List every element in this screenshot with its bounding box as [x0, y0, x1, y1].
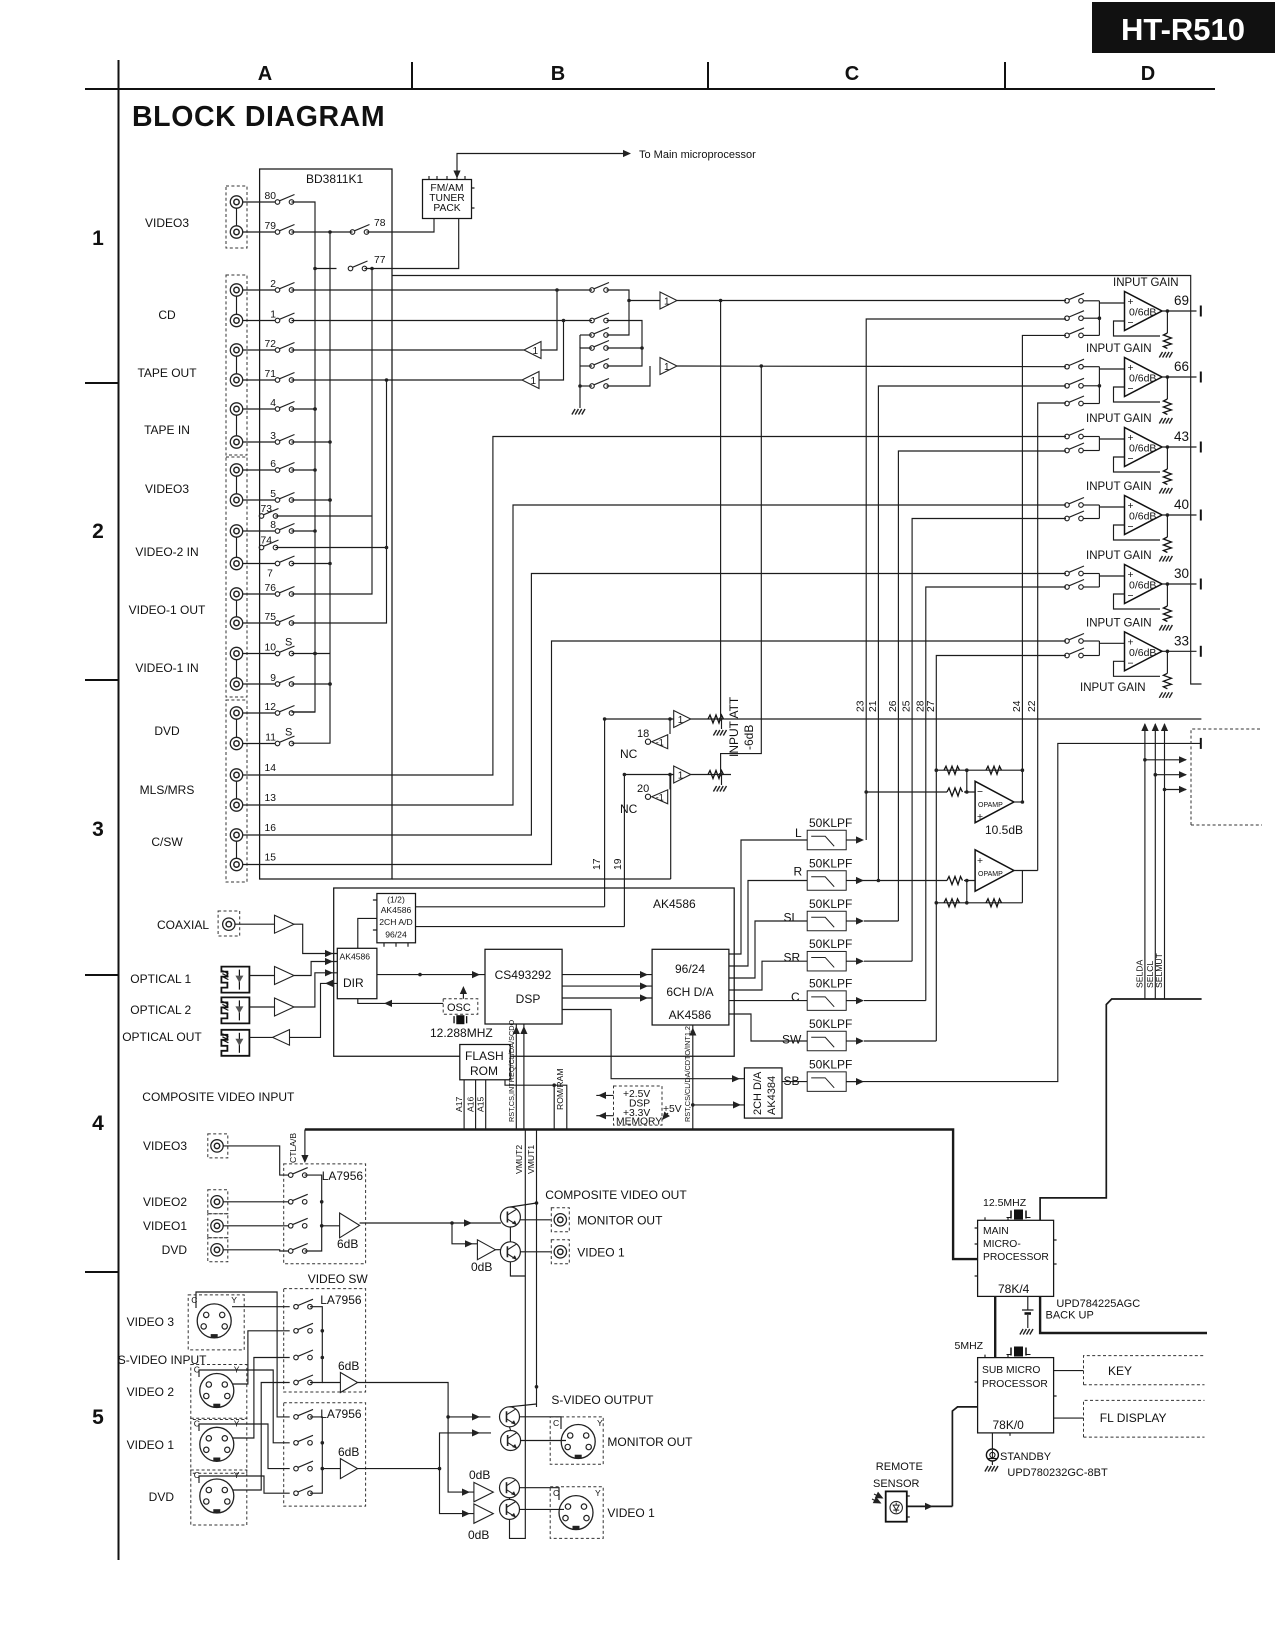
wire gain switch 66.3: [1084, 403, 1100, 405]
matrix sw-f stub: [580, 385, 592, 387]
svg-text:0/6dB: 0/6dB: [1129, 580, 1156, 592]
svg-text:VIDEO2: VIDEO2: [143, 1195, 187, 1209]
VMUT1 line: [536, 1130, 538, 1204]
50KLPF C box: [807, 991, 846, 1011]
jack MLS/MRS L: [230, 769, 242, 781]
wire NC 18: [669, 719, 671, 734]
jack TAPE IN L: [230, 403, 242, 415]
wire collector to amp 69: [1099, 302, 1124, 304]
svg-text:INPUT ATT: INPUT ATT: [727, 696, 741, 757]
svg-text:Y: Y: [234, 1418, 240, 1428]
power arrow 2: [596, 1115, 613, 1117]
wire gain switch 66.2: [1084, 385, 1100, 387]
opamp L input wire: [866, 791, 975, 793]
dashed jack group VIDEO3 top: [226, 186, 247, 248]
SELCL branch: [1155, 774, 1186, 776]
svg-text:INPUT GAIN: INPUT GAIN: [1086, 481, 1152, 493]
sv route dvdc: [199, 1476, 290, 1493]
svg-text:2CH A/D: 2CH A/D: [379, 917, 412, 927]
net 26 vertical: [898, 451, 1066, 921]
junction: [1166, 445, 1170, 449]
gain feedback 40: [1114, 525, 1161, 540]
matrix switch: [590, 359, 609, 369]
50KLPF L box: [807, 830, 846, 850]
svg-text:77: 77: [374, 255, 386, 266]
svg-text:C: C: [791, 990, 800, 1004]
lpf SW out: [864, 1040, 936, 1042]
att buffer L: [674, 711, 691, 728]
50KLPF R out arrow: [846, 880, 858, 882]
cv collector: [305, 1175, 322, 1251]
wire buffer L out: [677, 300, 1066, 302]
svg-text:76: 76: [265, 583, 277, 594]
jack VIDEO-1 IN R: [230, 678, 242, 690]
svg-text:PROCESSOR: PROCESSOR: [983, 1252, 1049, 1263]
jack VIDEO-2 IN R: [230, 557, 242, 569]
DA out wire: [729, 840, 807, 954]
svg-text:RST,CS,INTREQ/CL/DA/SCDO: RST,CS,INTREQ/CL/DA/SCDO: [507, 1020, 516, 1122]
svg-text:B: B: [551, 63, 565, 85]
wire pin 14 run: [243, 437, 1066, 776]
svg-text:13: 13: [265, 793, 277, 804]
svg-text:LA7956: LA7956: [320, 1407, 362, 1421]
NC buffer 18: [652, 735, 668, 749]
sv Y out: [358, 1383, 491, 1417]
svg-text:33: 33: [1174, 633, 1189, 648]
svg-text:96/24: 96/24: [675, 962, 705, 976]
sv C 6dB amp: [340, 1459, 357, 1479]
matrix switch: [590, 328, 609, 338]
svg-text:Y: Y: [231, 1295, 237, 1305]
transistor link: [509, 1227, 511, 1242]
svg-text:OPAMP: OPAMP: [978, 871, 1003, 878]
junction: [313, 267, 317, 271]
svg-text:79: 79: [265, 221, 277, 232]
junction: [555, 288, 559, 292]
cv selector switch: [288, 1168, 307, 1178]
svg-text:VIDEO 1: VIDEO 1: [127, 1438, 175, 1452]
svg-text:78K/4: 78K/4: [998, 1282, 1030, 1296]
svg-text:ROM/RAM: ROM/RAM: [555, 1068, 565, 1110]
svg-text:OPTICAL OUT: OPTICAL OUT: [122, 1030, 202, 1044]
switch pin 73: [259, 509, 278, 519]
junction: [578, 384, 582, 388]
cv wire video2: [224, 1201, 289, 1203]
jack DVD L: [230, 707, 242, 719]
gain switch 69.3: [1065, 328, 1084, 338]
wire gain switch 40.2: [1084, 518, 1100, 520]
main buffer R: [660, 358, 677, 375]
att resistor R: [708, 771, 724, 779]
main control bus: [305, 1130, 978, 1260]
junction: [719, 299, 723, 303]
sv route v1y: [233, 1358, 290, 1439]
50KLPF SB out arrow: [846, 1081, 858, 1083]
opamp R fb link: [966, 881, 968, 903]
gain collector 43: [1098, 437, 1100, 451]
att feed from buffer L out: [720, 301, 722, 720]
svg-text:OPAMP: OPAMP: [978, 802, 1003, 809]
wire pin9: [292, 683, 331, 685]
gain shunt resistor 66: [1166, 377, 1168, 399]
svg-text:VIDEO 1: VIDEO 1: [577, 1246, 625, 1260]
svg-text:26: 26: [888, 700, 899, 712]
svg-text:C: C: [845, 63, 859, 85]
50KLPF SL box: [807, 911, 846, 931]
gain switch 66.1: [1065, 359, 1084, 369]
video1 out jack: [551, 1240, 569, 1264]
SELMUT branch: [1165, 789, 1187, 791]
matrix switch: [590, 341, 609, 351]
junction: [719, 717, 723, 721]
svg-text:28: 28: [915, 700, 926, 712]
svg-text:OPTICAL 1: OPTICAL 1: [130, 972, 191, 986]
junction: [668, 717, 672, 721]
lpf SL out: [864, 920, 898, 922]
NC pin 20: [645, 794, 650, 799]
rec buffer L: [524, 342, 541, 359]
svg-text:(1/2): (1/2): [387, 895, 405, 905]
wire rec buffer L input: [541, 290, 557, 350]
crystal main: [1007, 1210, 1031, 1220]
svg-text:PACK: PACK: [433, 203, 460, 214]
svg-text:30: 30: [1174, 566, 1189, 581]
COAXIAL amp: [275, 915, 295, 933]
tuner pack top pin ticks: [429, 176, 465, 180]
sel bus path: [1040, 999, 1202, 1220]
svg-text:1: 1: [270, 310, 276, 321]
matrix collector R: [607, 321, 643, 367]
sv 0dB amp 2: [474, 1504, 493, 1523]
net sw76 vertical: [292, 269, 373, 595]
matrix sw-d right: [607, 347, 643, 349]
standby ground: [985, 1466, 998, 1472]
junction: [623, 773, 627, 777]
opamp R out: [1014, 870, 1038, 872]
svg-text:DVD: DVD: [149, 1490, 175, 1504]
cv wire video1: [224, 1225, 289, 1227]
sv video1 out connector: [550, 1487, 603, 1539]
gain out tick 66: [1200, 372, 1202, 383]
svg-text:A: A: [258, 63, 272, 85]
junction: [328, 682, 332, 686]
wire pin72 rec: [292, 349, 525, 351]
FM/AM dashed right pins: [472, 188, 475, 208]
stub to bus L: [292, 469, 316, 471]
jack pair link: [236, 538, 238, 558]
svg-text:−: −: [1128, 591, 1134, 602]
net 25 vertical: [912, 519, 1066, 962]
jack VIDEO-2 IN L: [230, 525, 242, 537]
jack VIDEO-1 OUT R: [230, 617, 242, 629]
junction: [385, 546, 389, 550]
junction: [1166, 375, 1170, 379]
svg-text:74: 74: [261, 536, 273, 547]
gain collector 40: [1098, 505, 1100, 519]
junction: [1166, 513, 1170, 517]
jack pair link: [236, 660, 238, 678]
wire jack to pin 8: [243, 530, 275, 532]
svg-text:CTLA/B: CTLA/B: [288, 1133, 298, 1163]
switch pin 79: [275, 225, 294, 235]
sv route v1c: [199, 1424, 290, 1469]
junction: [668, 773, 672, 777]
ADC 1/2 pin ticks: [373, 900, 408, 947]
switch pin 3: [275, 435, 294, 445]
svg-text:40: 40: [1174, 497, 1189, 512]
SELCL line: [1154, 724, 1156, 999]
sv connector VIDEO 3 dashed: [188, 1295, 244, 1350]
rom/ram lines: [505, 1080, 567, 1130]
wire jack to pin 11: [243, 743, 275, 745]
COAXIAL jack: [223, 918, 235, 930]
svg-text:AK4586: AK4586: [381, 905, 412, 915]
wire jack to pin 4: [243, 408, 275, 410]
junction: [603, 717, 607, 721]
svg-text:INPUT GAIN: INPUT GAIN: [1113, 277, 1179, 289]
address line A16: [475, 1080, 477, 1130]
svg-text:SUB MICRO: SUB MICRO: [982, 1365, 1040, 1376]
DIR to DSP wire: [377, 974, 485, 976]
wire collector to amp 33: [1099, 642, 1124, 644]
switch pin 5: [275, 493, 294, 503]
row tick 2-3: [85, 679, 118, 681]
net 19 to ADC: [416, 926, 625, 928]
gain feedback 43: [1114, 457, 1161, 472]
svg-text:16: 16: [265, 823, 277, 834]
svg-text:REMOTE: REMOTE: [876, 1461, 923, 1473]
DSP ctrl line: [515, 1024, 517, 1130]
50KLPF SR out arrow: [846, 960, 858, 962]
wire jack to pin 79: [243, 231, 275, 233]
OSC crystal: [454, 1015, 467, 1024]
svg-text:S: S: [285, 727, 292, 739]
svg-text:VIDEO1: VIDEO1: [143, 1219, 187, 1233]
monitor out jack: [551, 1208, 569, 1232]
row tick 1-2: [85, 382, 118, 384]
cv jack dashed VIDEO2: [208, 1190, 228, 1214]
lpf SR out: [864, 960, 912, 962]
cv jack dashed VIDEO3: [208, 1134, 228, 1158]
att ground stub R: [721, 775, 723, 786]
OSC clock arrow: [462, 988, 464, 999]
wire collector to amp 66: [1099, 368, 1124, 370]
sv route v2c: [199, 1370, 290, 1443]
AK4384 to SB lpf: [782, 1081, 807, 1083]
COAXIAL to DIR: [294, 924, 337, 953]
thick line to right: [1040, 1296, 1207, 1333]
lpf SB out: [846, 743, 1201, 1081]
svg-text:MLS/MRS: MLS/MRS: [140, 783, 195, 797]
cv selector switch: [288, 1244, 307, 1254]
cv jack VIDEO2: [211, 1196, 223, 1208]
wire pin 16 run: [243, 574, 1066, 836]
svg-text:7: 7: [267, 569, 273, 580]
wire jack to pin 12: [243, 712, 275, 714]
junction: [1166, 582, 1170, 586]
svg-text:LA7956: LA7956: [322, 1169, 364, 1183]
svg-text:Y: Y: [597, 1418, 603, 1428]
svg-text:VIDEO3: VIDEO3: [145, 482, 189, 496]
6CH DA box: [652, 949, 729, 1025]
net 22 vertical: [1038, 403, 1066, 871]
sensor wire: [907, 1505, 953, 1507]
wire buffer R out: [677, 365, 1066, 368]
main-sub link: [994, 1296, 996, 1357]
net 21 vertical: [878, 386, 1066, 881]
junction: [385, 378, 389, 382]
sv branch Y to 0dB: [448, 1417, 474, 1492]
ADC to DIR link: [358, 918, 377, 948]
LA7956 svideo Y box: [284, 1289, 366, 1392]
wire gain switch 69.3: [1084, 334, 1100, 336]
gain out tick 40: [1200, 510, 1202, 521]
net 19 vertical: [623, 775, 625, 927]
opamp L: [975, 781, 1014, 822]
jack pair link: [236, 477, 238, 494]
svg-text:HT-R510: HT-R510: [1121, 12, 1245, 47]
DA out wire: [729, 881, 807, 967]
gain shunt resistor 43: [1166, 447, 1168, 469]
net sw75 vertical: [292, 380, 387, 623]
svg-text:L: L: [795, 826, 802, 840]
cv jack VIDEO3: [211, 1140, 223, 1152]
wire jack to pin 2: [243, 289, 275, 291]
standby wire: [991, 1433, 993, 1449]
gain shunt resistor 40: [1166, 515, 1168, 537]
junction: [370, 267, 374, 271]
gain out wire 30: [1162, 583, 1197, 585]
wire pin10: [292, 653, 331, 655]
svg-text:ROM: ROM: [470, 1064, 498, 1078]
svg-text:VMUT1: VMUT1: [526, 1145, 536, 1174]
switch pin 75: [275, 616, 294, 626]
jack TAPE IN R: [230, 436, 242, 448]
svg-text:2: 2: [92, 520, 104, 543]
junction: [1098, 316, 1102, 320]
wire jack to pin 3: [243, 441, 275, 443]
gain feedback 69: [1114, 321, 1161, 336]
50KLPF SR box: [807, 951, 846, 971]
gain ground 43: [1159, 488, 1172, 494]
wire jack to pin 6: [243, 469, 275, 471]
OPTICAL 2 connector: [221, 997, 249, 1023]
net 23 vertical: [866, 319, 1066, 840]
svg-text:INPUT GAIN: INPUT GAIN: [1086, 550, 1152, 562]
wire gain switch 66.1: [1084, 366, 1100, 368]
svg-text:LA7956: LA7956: [320, 1293, 362, 1307]
svg-text:17: 17: [592, 858, 603, 870]
backup ground: [1020, 1329, 1033, 1335]
cv wire dvd: [224, 1250, 289, 1251]
OPTICAL 1 wire: [250, 975, 275, 977]
junction: [1166, 309, 1170, 313]
svg-text:VIDEO3: VIDEO3: [143, 1139, 187, 1153]
address line A17: [463, 1080, 465, 1130]
DA ctrl line: [692, 1025, 694, 1130]
wire 79 stub to 78: [330, 231, 353, 233]
wire to buffer L: [629, 300, 660, 302]
gain amp 40: [1125, 496, 1163, 535]
svg-text:NC: NC: [620, 747, 638, 761]
NC pin 18: [645, 739, 650, 744]
wire to main microprocessor: [457, 154, 626, 178]
wire jack to pin 5: [243, 499, 275, 501]
wire jack to pin 72: [243, 349, 275, 351]
junction: [760, 364, 764, 368]
svg-text:6dB: 6dB: [337, 1237, 358, 1251]
DSP serial to AK4384: [562, 1010, 744, 1079]
wire pin 78 to tuner: [367, 219, 435, 233]
wire jack to pin 7: [243, 563, 275, 565]
jack CD R: [230, 314, 242, 326]
svg-text:DIR: DIR: [343, 976, 364, 990]
sv transistor Y: [500, 1407, 520, 1427]
svg-text:6dB: 6dB: [338, 1359, 359, 1373]
OPTICAL 2 wire: [250, 1006, 275, 1008]
DA out wire: [729, 1014, 807, 1041]
svg-text:18: 18: [637, 728, 649, 740]
switch pin 8: [275, 524, 294, 534]
svg-text:BLOCK DIAGRAM: BLOCK DIAGRAM: [132, 101, 385, 133]
switch pin 10: [275, 646, 294, 656]
svg-text:MONITOR OUT: MONITOR OUT: [607, 1435, 693, 1449]
wire sw74 to net: [276, 547, 387, 549]
wire gain switch 30.1: [1084, 573, 1100, 575]
svg-text:UPD780232GC-8BT: UPD780232GC-8BT: [1007, 1467, 1108, 1479]
svg-text:INPUT GAIN: INPUT GAIN: [1080, 682, 1146, 694]
gain out wire 66: [1162, 376, 1197, 378]
LA7956 svideo C box: [284, 1403, 366, 1506]
KEY dashed box: [1084, 1356, 1205, 1385]
jack pair link: [236, 209, 238, 226]
wire jack to pin 9: [243, 683, 275, 685]
svg-text:9: 9: [270, 673, 276, 684]
key wire: [1054, 1370, 1084, 1372]
svg-text:VIDEO-1 OUT: VIDEO-1 OUT: [129, 603, 206, 617]
DA ctrl to AK4384: [693, 1104, 745, 1106]
cv selector switch: [288, 1194, 307, 1204]
standby LED: [986, 1449, 998, 1461]
svg-text:27: 27: [926, 700, 937, 712]
svg-text:72: 72: [265, 339, 277, 350]
gain switch 30.2: [1065, 580, 1084, 590]
left border line: [118, 60, 120, 1560]
svg-text:DVD: DVD: [162, 1243, 188, 1257]
svg-text:AK4586: AK4586: [653, 897, 696, 911]
matrix sw-f right: [607, 366, 651, 386]
cv 0dB amp: [477, 1240, 495, 1260]
wire collector to amp 30: [1099, 575, 1124, 577]
svg-text:A15: A15: [476, 1096, 486, 1112]
gain collector 33: [1098, 641, 1100, 656]
svg-text:10.5dB: 10.5dB: [985, 823, 1023, 837]
switch pin 77: [348, 261, 367, 271]
junction: [328, 230, 332, 234]
svg-text:SR: SR: [784, 951, 801, 965]
gain switch 69.2: [1065, 311, 1084, 321]
svg-text:−: −: [977, 787, 983, 798]
wire pin 13 run: [243, 505, 1066, 805]
gain out wire 43: [1162, 446, 1197, 448]
svg-text:12.288MHZ: 12.288MHZ: [430, 1026, 493, 1040]
svg-text:VMUT2: VMUT2: [514, 1145, 524, 1174]
+5V arrow: [663, 1113, 668, 1119]
sv video1 out wires: [519, 1488, 559, 1500]
DSP to DA wire: [562, 997, 652, 999]
svg-text:4: 4: [270, 398, 276, 409]
gain ground 33: [1159, 692, 1172, 698]
